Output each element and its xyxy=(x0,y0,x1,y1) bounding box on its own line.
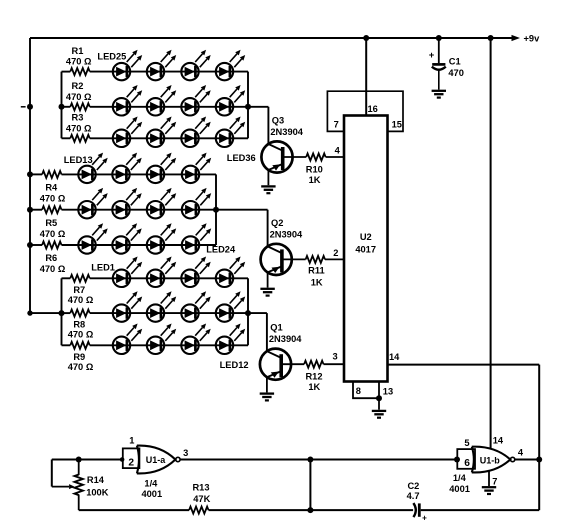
svg-text:7: 7 xyxy=(334,119,339,129)
LED5 xyxy=(113,291,142,322)
svg-text:6: 6 xyxy=(464,458,470,469)
LED9 xyxy=(113,324,142,355)
resistor R4 470 &#937; xyxy=(40,171,66,204)
svg-text:4: 4 xyxy=(335,146,341,156)
svg-text:U2: U2 xyxy=(360,232,372,242)
svg-text:2N3904: 2N3904 xyxy=(269,334,302,344)
svg-text:R7: R7 xyxy=(73,285,85,295)
svg-text:100K: 100K xyxy=(86,487,109,497)
junction rail to U1-b pin14 xyxy=(488,35,494,41)
svg-text:R14: R14 xyxy=(87,475,105,485)
wire bottom rail right xyxy=(421,509,540,511)
transistor Q1 2N3904 xyxy=(260,323,302,380)
LED14 xyxy=(112,153,141,184)
svg-text:15: 15 xyxy=(392,119,402,129)
svg-text:470 Ω: 470 Ω xyxy=(66,92,92,102)
svg-text:R6: R6 xyxy=(45,253,57,263)
wire group1 row2 xyxy=(62,106,249,108)
svg-text:470 Ω: 470 Ω xyxy=(68,330,94,340)
svg-text:4001: 4001 xyxy=(141,489,162,499)
svg-text:1K: 1K xyxy=(309,175,321,185)
svg-text:Q3: Q3 xyxy=(272,115,284,125)
svg-text:R13: R13 xyxy=(192,483,209,493)
wire group1 row3 xyxy=(62,137,249,139)
LED16 xyxy=(182,153,211,184)
IC U2 4017 xyxy=(344,116,388,382)
resistor R12 1K xyxy=(304,361,323,392)
ground U2 pin 8 13 xyxy=(372,411,386,418)
LED29 xyxy=(113,85,142,116)
ground below C1 xyxy=(432,91,446,98)
wire clock line right vertical xyxy=(538,365,540,511)
wire +9V to U2 pin 16 xyxy=(365,38,367,117)
wire group1 cathode bus xyxy=(247,72,249,139)
wire R10 to U2 pin 4 xyxy=(326,156,344,158)
svg-text:1/4: 1/4 xyxy=(453,473,467,483)
wire Q2 base to R xyxy=(282,258,306,260)
svg-text:2: 2 xyxy=(128,458,134,469)
svg-text:R12: R12 xyxy=(305,372,322,382)
svg-text:13: 13 xyxy=(383,386,393,396)
resistor R3 470 &#937; xyxy=(66,113,92,142)
junction group2 row2 xyxy=(27,207,33,213)
wire +9V supply rail xyxy=(30,37,517,39)
ground Q3 emitter xyxy=(261,186,275,193)
svg-text:2N3904: 2N3904 xyxy=(270,127,303,137)
wire group2 to Q2 collector xyxy=(216,210,268,247)
svg-text:1K: 1K xyxy=(311,277,323,287)
wire U2 pin 14 to clock xyxy=(388,364,540,366)
wire group1 to Q3 collector xyxy=(248,107,268,144)
svg-text:R10: R10 xyxy=(306,165,323,175)
svg-text:1: 1 xyxy=(129,435,134,445)
svg-text:C1: C1 xyxy=(449,57,461,67)
wire group1 row1 xyxy=(62,71,249,73)
LED28 xyxy=(216,50,245,81)
LED8 xyxy=(216,291,245,322)
svg-text:LED1: LED1 xyxy=(91,263,115,273)
svg-text:R3: R3 xyxy=(72,113,84,123)
LED12 xyxy=(216,324,245,355)
gate U1-b 1/4 4001 xyxy=(449,438,515,494)
svg-text:LED13: LED13 xyxy=(64,155,93,165)
ground Q1 emitter xyxy=(260,394,274,401)
svg-text:R9: R9 xyxy=(73,352,85,362)
svg-text:470 Ω: 470 Ω xyxy=(68,362,94,372)
wire group2 cathode bus xyxy=(215,174,217,245)
svg-text:1K: 1K xyxy=(308,382,320,392)
svg-text:4001: 4001 xyxy=(449,484,470,494)
LED13 xyxy=(78,153,107,184)
resistor R2 470 &#937; xyxy=(66,81,92,110)
wire group3 anode bus xyxy=(61,278,63,345)
LED30 xyxy=(147,85,176,116)
svg-text:R5: R5 xyxy=(45,218,57,228)
LED7 xyxy=(181,291,210,322)
junction U1-a input R14 xyxy=(76,457,82,463)
svg-text:Q2: Q2 xyxy=(271,218,283,228)
svg-text:+: + xyxy=(429,50,435,61)
wire Q3 base to R xyxy=(283,156,307,158)
LED1 xyxy=(113,257,142,288)
stub left of node xyxy=(21,106,26,108)
wire group2 row1 xyxy=(30,173,216,175)
junction rail to U2 pin16 xyxy=(363,35,369,41)
svg-text:LED12: LED12 xyxy=(220,360,249,370)
svg-text:470 Ω: 470 Ω xyxy=(66,57,92,67)
wire Q2 emitter xyxy=(267,272,269,287)
LED34 xyxy=(147,117,176,148)
svg-text:+: + xyxy=(422,514,427,523)
gate U1-a 1/4 4001 xyxy=(123,435,180,499)
svg-text:470 Ω: 470 Ω xyxy=(68,295,94,305)
LED21 xyxy=(78,223,107,254)
LED33 xyxy=(113,117,142,148)
junction group3 bus xyxy=(27,310,32,315)
wire group3 row3 xyxy=(62,344,249,346)
svg-text:4.7: 4.7 xyxy=(407,491,420,501)
svg-text:16: 16 xyxy=(368,104,378,114)
LED23 xyxy=(147,223,176,254)
transistor Q3 2N3904 xyxy=(261,115,303,172)
wire bottom rail middle xyxy=(209,509,414,511)
junction feedback rail xyxy=(307,507,313,513)
wire group2 row2 xyxy=(30,209,216,211)
junction pin13 ground xyxy=(376,395,382,401)
ground Q2 emitter xyxy=(260,289,274,296)
wire +9V down to U1-b pin 14 xyxy=(490,38,492,449)
resistor R10 1K xyxy=(306,154,326,185)
junction group1 cathode xyxy=(245,104,251,110)
svg-text:R2: R2 xyxy=(72,81,84,91)
svg-text:47K: 47K xyxy=(193,494,210,504)
svg-text:+9v: +9v xyxy=(524,34,541,44)
LED3 xyxy=(181,257,210,288)
svg-text:R4: R4 xyxy=(45,183,58,193)
wire R11 to U2 pin 2 xyxy=(325,258,344,260)
junction gate input xyxy=(120,457,125,462)
junction feedback node xyxy=(307,457,313,463)
svg-text:LED24: LED24 xyxy=(206,245,236,255)
svg-text:U1-a: U1-a xyxy=(146,455,167,465)
junction group2 cathode xyxy=(213,207,219,213)
svg-text:14: 14 xyxy=(389,352,400,362)
svg-text:C2: C2 xyxy=(407,481,419,491)
wire bottom rail left xyxy=(79,509,189,511)
svg-text:470: 470 xyxy=(448,68,464,78)
junction group2 row1 xyxy=(27,171,33,177)
wire group3 row1 xyxy=(62,277,249,279)
LED27 xyxy=(181,50,210,81)
resistor R13 47K xyxy=(189,483,211,514)
svg-text:4017: 4017 xyxy=(355,244,376,254)
LED26 xyxy=(147,50,176,81)
LED4 xyxy=(216,257,245,288)
svg-text:4: 4 xyxy=(518,448,524,458)
svg-text:LED36: LED36 xyxy=(227,153,256,163)
svg-text:U1-b: U1-b xyxy=(480,455,501,465)
wire group1 anode bus xyxy=(61,72,63,139)
capacitor C1 470uF xyxy=(429,38,464,90)
ground U1-b pin 7 xyxy=(482,487,496,494)
LED2 xyxy=(147,257,176,288)
resistor R7 470 &#937; xyxy=(68,275,94,305)
svg-text:470 Ω: 470 Ω xyxy=(40,194,66,204)
svg-text:R1: R1 xyxy=(72,46,84,56)
LED18 xyxy=(112,188,141,219)
svg-text:14: 14 xyxy=(493,436,504,446)
svg-text:8: 8 xyxy=(356,386,361,396)
potentiometer R14 100K xyxy=(75,460,109,511)
resistor R6 470 &#937; xyxy=(40,242,66,275)
LED20 xyxy=(182,188,211,219)
wire Q1 emitter xyxy=(266,377,268,392)
svg-text:Q1: Q1 xyxy=(270,323,282,333)
svg-text:2: 2 xyxy=(333,248,338,258)
LED19 xyxy=(147,188,176,219)
resistor R11 1K xyxy=(306,256,325,288)
svg-text:470 Ω: 470 Ω xyxy=(40,229,66,239)
LED11 xyxy=(181,324,210,355)
junction U1-b input xyxy=(454,457,460,463)
resistor R8 470 &#937; xyxy=(68,310,94,340)
svg-text:470 Ω: 470 Ω xyxy=(66,123,92,133)
wire feedback to bottom rail xyxy=(309,460,311,511)
wire Q3 emitter xyxy=(267,170,269,185)
svg-text:LED25: LED25 xyxy=(97,52,126,62)
resistor R1 470 &#937; xyxy=(66,46,92,75)
wire U2 pin7 to pin15 reset loop xyxy=(327,91,403,131)
resistor R9 470 &#937; xyxy=(68,342,94,372)
wire R14 wiper loop xyxy=(52,460,75,490)
LED35 xyxy=(181,117,210,148)
LED36 xyxy=(216,117,245,148)
junction group2 row3 xyxy=(27,242,33,248)
svg-text:5: 5 xyxy=(464,438,469,448)
svg-text:3: 3 xyxy=(183,448,188,458)
LED32 xyxy=(216,85,245,116)
wire group3 to Q1 collector xyxy=(248,313,267,351)
junction group3 cathode xyxy=(245,310,251,316)
LED24 xyxy=(182,223,211,254)
capacitor C2 4.7uF xyxy=(407,481,428,522)
wire group3 row2 xyxy=(62,312,249,314)
LED22 xyxy=(112,223,141,254)
svg-text:7: 7 xyxy=(492,476,497,486)
svg-text:2N3904: 2N3904 xyxy=(270,229,303,239)
wire U1-a output to U1-b input xyxy=(180,459,457,461)
LED15 xyxy=(147,153,176,184)
LED25 xyxy=(113,50,142,81)
svg-text:470 Ω: 470 Ω xyxy=(40,264,66,274)
wire U2 pins 8 13 to ground xyxy=(353,382,379,410)
wire left supply bus xyxy=(30,38,62,313)
LED31 xyxy=(181,85,210,116)
wire group2 row3 xyxy=(30,244,216,246)
wire U1-b output xyxy=(515,459,539,461)
wire U1-b pin 7 ground xyxy=(488,471,490,486)
net label +9V with arrowhead xyxy=(512,34,541,44)
LED6 xyxy=(147,291,176,322)
wire R12 to U2 pin 3 xyxy=(324,363,345,365)
svg-text:1/4: 1/4 xyxy=(144,478,158,488)
wire Q1 base to R xyxy=(281,363,304,365)
LED10 xyxy=(147,324,176,355)
junction U1-b output clock xyxy=(536,457,542,463)
transistor Q2 2N3904 xyxy=(261,218,303,275)
wire U1-a input xyxy=(52,459,123,461)
LED17 xyxy=(78,188,107,219)
svg-text:R11: R11 xyxy=(308,265,325,275)
junction group1 bus row2 xyxy=(27,104,33,110)
resistor R5 470 &#937; xyxy=(40,206,66,239)
junction rail to C1 xyxy=(436,35,442,41)
svg-text:3: 3 xyxy=(333,352,338,362)
svg-text:R8: R8 xyxy=(73,320,85,330)
wire group3 cathode bus xyxy=(247,278,249,345)
